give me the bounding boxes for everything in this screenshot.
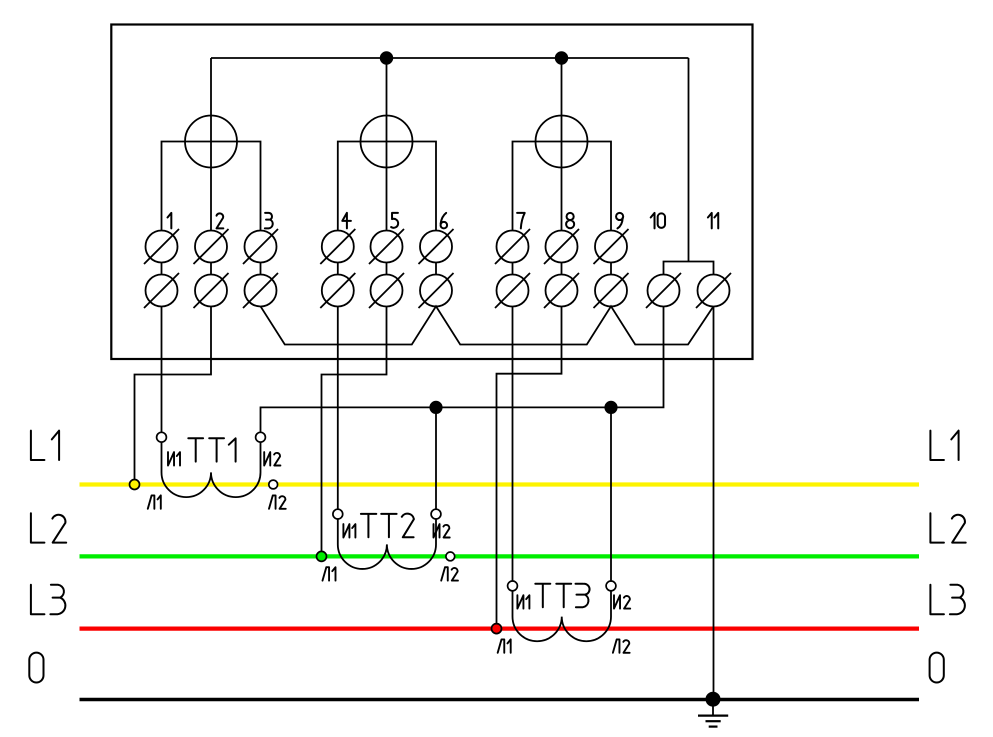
node: L1 tap dot (yellow): [130, 480, 140, 490]
terminal 5: [369, 229, 404, 308]
terminal 7: [495, 229, 530, 308]
pin label TT2 И1: [343, 524, 355, 537]
wire: terminal 7 to TT3 И1: [512, 306, 514, 581]
wire: И2 bus drop to TT2 И2: [435, 407, 437, 509]
wire: И2 return bus (terminal 10 to TT1/TT2/TT3 И2): [261, 306, 664, 432]
wire: terminal 4 to TT2 И1: [337, 306, 339, 509]
pin label TT3 И2: [614, 595, 630, 608]
terminal 11: [696, 273, 731, 308]
junction: И2 bus dot at TT3: [605, 402, 616, 413]
transformer TT3 pin И2: [606, 581, 616, 591]
transformer TT2 pin И1: [333, 509, 343, 519]
transformer TT1 pin Л2: [269, 480, 278, 489]
transformer TT3 pin И1: [508, 581, 518, 591]
wire: element 3 center drop (bus to terminal 8): [561, 58, 563, 231]
node: L3 tap dot (red): [492, 624, 502, 634]
wire: element 3 crossbar with drops to terminals 7 and 9: [513, 142, 612, 231]
net label 0 (right): [930, 653, 944, 683]
wire: element 2 crossbar with drops to terminals 4 and 6: [338, 142, 436, 231]
pin label TT3 Л1: [498, 639, 511, 652]
net label L2 (right): [930, 513, 965, 542]
transformer TT3 primary winding: [513, 591, 612, 641]
node: L2 tap dot (green): [317, 551, 327, 561]
meter enclosure: [111, 25, 752, 360]
wire: top voltage bus: [211, 57, 689, 59]
transformer TT2 pin Л2: [446, 552, 455, 561]
transformer TT1 pin И1: [157, 432, 167, 442]
net label L1 (right): [930, 431, 958, 460]
ground: [698, 699, 728, 726]
junction: neutral/earth dot: [706, 693, 719, 706]
net label L3 (left): [31, 585, 65, 614]
internal bus linking terminals 3,6,9,11: [261, 306, 714, 344]
wire: terminal 2 to L1 tap: [135, 306, 212, 482]
designator TT3: [535, 584, 589, 607]
transformer TT1 pin И2: [256, 432, 266, 442]
measuring element 1 (circle): [185, 116, 237, 168]
wire: element 2 center drop (bus to terminal 5): [386, 58, 388, 231]
terminal 10: [646, 273, 681, 308]
wire: bracket feed to terminals 10/11: [688, 58, 690, 262]
pin label TT2 И2: [434, 524, 450, 537]
wire: element 1 crossbar with drops to terminals 1 and 3: [162, 142, 261, 231]
net label L3 (right): [930, 585, 964, 614]
pin number 4: [342, 213, 351, 229]
wire: terminal 8 to L3 tap: [497, 306, 562, 626]
pin number 3: [265, 213, 273, 229]
net label 0 (left): [29, 653, 43, 683]
terminal 9: [594, 229, 629, 308]
pin label TT1 Л2: [269, 495, 286, 508]
wire: И2 bus drop to TT3 И2: [610, 407, 612, 581]
pin label TT1 Л1: [148, 495, 161, 508]
phase line L1 (yellow): [80, 482, 920, 486]
net label L2 (left): [31, 513, 66, 542]
wire: terminal 1 to TT1 И1: [161, 306, 163, 432]
neutral line 0: [80, 698, 920, 701]
pin label TT1 И2: [264, 452, 280, 465]
net label L1 (left): [31, 431, 59, 460]
terminal 1: [144, 229, 179, 308]
pin label TT3 Л2: [613, 639, 630, 652]
measuring element 2 (circle): [361, 116, 413, 168]
pin number 6: [441, 213, 448, 229]
wire: terminal 11 to earth: [713, 306, 715, 699]
transformer TT1 primary winding: [162, 443, 261, 498]
terminal 6: [419, 229, 454, 308]
measuring element 3 (circle): [536, 116, 588, 168]
pin label TT1 И1: [168, 452, 180, 465]
wire: element 1 center drop (bus to terminal 2): [210, 58, 212, 231]
transformer TT2 pin И2: [431, 509, 441, 519]
terminal 4: [320, 229, 355, 308]
pin number 11: [708, 213, 718, 229]
wire: terminal 5 to L2 tap: [322, 306, 387, 554]
pin label TT3 И1: [517, 595, 529, 608]
pin number 8: [566, 213, 574, 228]
designator TT2: [361, 514, 414, 538]
pin number 7: [517, 213, 525, 229]
junction: И2 bus dot at TT2: [430, 402, 441, 413]
phase line L2 (green): [80, 554, 920, 558]
phase line L3 (red): [80, 626, 920, 630]
pin number 5: [391, 213, 398, 228]
junction: bus dot over element 2: [381, 52, 393, 64]
terminal 8: [544, 229, 579, 308]
pin number 10: [651, 213, 665, 229]
terminal 3: [243, 229, 278, 308]
pin label TT2 Л1: [323, 567, 336, 580]
wire: bracket over terminals 10 and 11: [664, 262, 714, 275]
designator TT1: [188, 438, 235, 461]
pin number 1: [168, 213, 172, 229]
pin number 9: [616, 213, 623, 229]
terminal 2: [194, 229, 229, 308]
pin number 2: [217, 213, 224, 228]
transformer TT2 primary winding: [338, 520, 436, 569]
pin label TT2 Л2: [441, 567, 458, 580]
junction: bus dot over element 3: [556, 52, 568, 64]
